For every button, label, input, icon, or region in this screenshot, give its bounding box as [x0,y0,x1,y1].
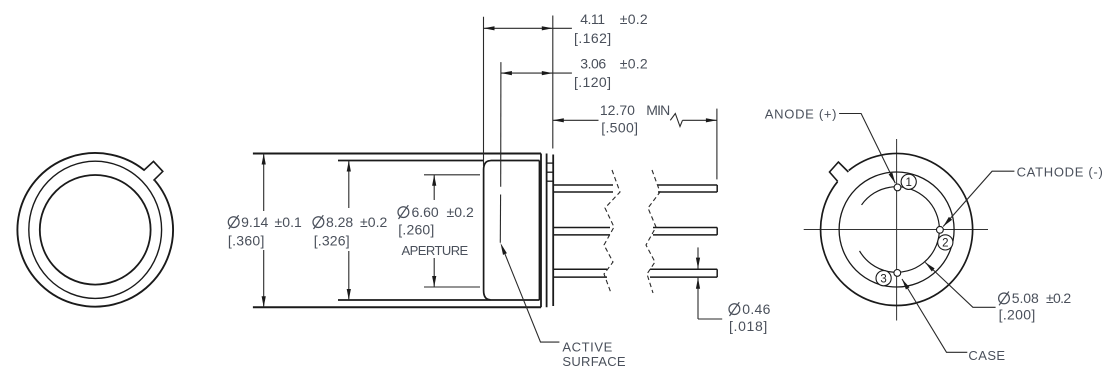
svg-text:5.08: 5.08 [1012,290,1039,306]
svg-text:±0.2: ±0.2 [620,55,648,71]
svg-text:[.360]: [.360] [228,233,265,249]
svg-text:[.018]: [.018] [729,318,767,334]
dimension 12.70 MIN extension line [716,109,718,180]
svg-text:[.120]: [.120] [574,74,611,90]
svg-text:4.11: 4.11 [580,11,605,27]
bottom view: can rim circle [839,172,954,287]
dimension 4.11 extension lines [483,17,485,166]
front view: orientation tab [144,161,163,180]
balloon 2 [938,235,953,250]
dimension Ø6.60 aperture extension lines [424,174,480,176]
svg-text:±0.2: ±0.2 [360,214,388,230]
svg-text:9.14: 9.14 [241,214,268,230]
svg-text:SURFACE: SURFACE [562,354,626,369]
svg-text:±0.1: ±0.1 [275,214,303,230]
pin 1 pad (anode) [894,184,901,191]
svg-text:±0.2: ±0.2 [620,11,648,27]
svg-text:8.28: 8.28 [326,214,353,230]
svg-text:1: 1 [905,177,911,189]
side view: cap bottom line [338,299,540,301]
svg-text:MIN: MIN [646,102,670,118]
svg-text:CASE: CASE [968,348,1005,363]
dimension 12.70 MIN [.500] [553,119,599,121]
bottom view: orientation tab [830,162,849,182]
dimension Ø0.46 [.018] [697,247,699,268]
svg-text:ACTIVE: ACTIVE [562,339,612,354]
svg-text:CATHODE (-): CATHODE (-) [1017,164,1103,179]
side view: header face line [552,155,554,307]
dimension Ø5.08 [.200] with leader [925,262,995,307]
svg-text:±0.2: ±0.2 [1046,290,1071,306]
svg-text:12.70: 12.70 [600,102,635,118]
svg-text:ANODE (+): ANODE (+) [765,106,837,121]
side view: base inner edge [539,161,541,301]
balloon 3 [876,271,891,286]
front view: outer flange circle [17,153,173,307]
svg-text:2: 2 [942,238,948,250]
svg-text:±0.2: ±0.2 [447,204,475,220]
front view: can rim circle [29,161,162,298]
svg-text:[.260]: [.260] [398,221,434,237]
front view: window circle [40,175,151,285]
pin break line left [604,170,620,293]
side view: window inner edge (rounded) [484,161,491,300]
pin 3 side view [553,268,607,270]
active surface line [499,195,501,243]
svg-text:APERTURE: APERTURE [402,243,469,258]
dimension 3.06 extension line [500,62,502,187]
bottom view: vertical centerline [896,139,898,321]
side view: flange face line [546,154,548,308]
side view: seal boxes [547,162,554,164]
pin 2 side view [553,227,610,229]
bottom view: horizontal centerline [804,229,988,231]
active surface leader [501,243,507,255]
svg-text:6.60: 6.60 [412,204,439,220]
bottom view: pin bolt circle Ø5.08 [860,187,940,273]
svg-text:[.500]: [.500] [601,119,638,135]
side view: cap top line [338,160,483,162]
pin 2 pad (cathode) [937,226,944,233]
svg-text:0.46: 0.46 [742,301,770,317]
dimension 3.06 [.120] [501,72,572,74]
dimension Ø9.14 [.360] [263,154,265,212]
svg-text:3: 3 [880,273,886,285]
balloon 1 [901,174,916,189]
svg-text:[.200]: [.200] [999,307,1036,323]
side view: can top outline [253,153,541,155]
bottom view: outer flange circle [821,154,973,306]
svg-text:3.06: 3.06 [580,55,606,71]
svg-text:[.326]: [.326] [314,233,350,249]
pin break line right [646,170,660,293]
side view: can bottom outline [253,306,541,308]
pin 1 side view [553,184,613,186]
dimension Ø8.28 [.326] [348,161,350,209]
dimension Ø6.60 [.260] APERTURE [433,175,435,200]
svg-text:[.162]: [.162] [574,30,611,46]
side view: can right edge [540,154,542,308]
pin 3 pad (case) [894,270,901,277]
dimension 4.11 [.162] [484,27,572,29]
